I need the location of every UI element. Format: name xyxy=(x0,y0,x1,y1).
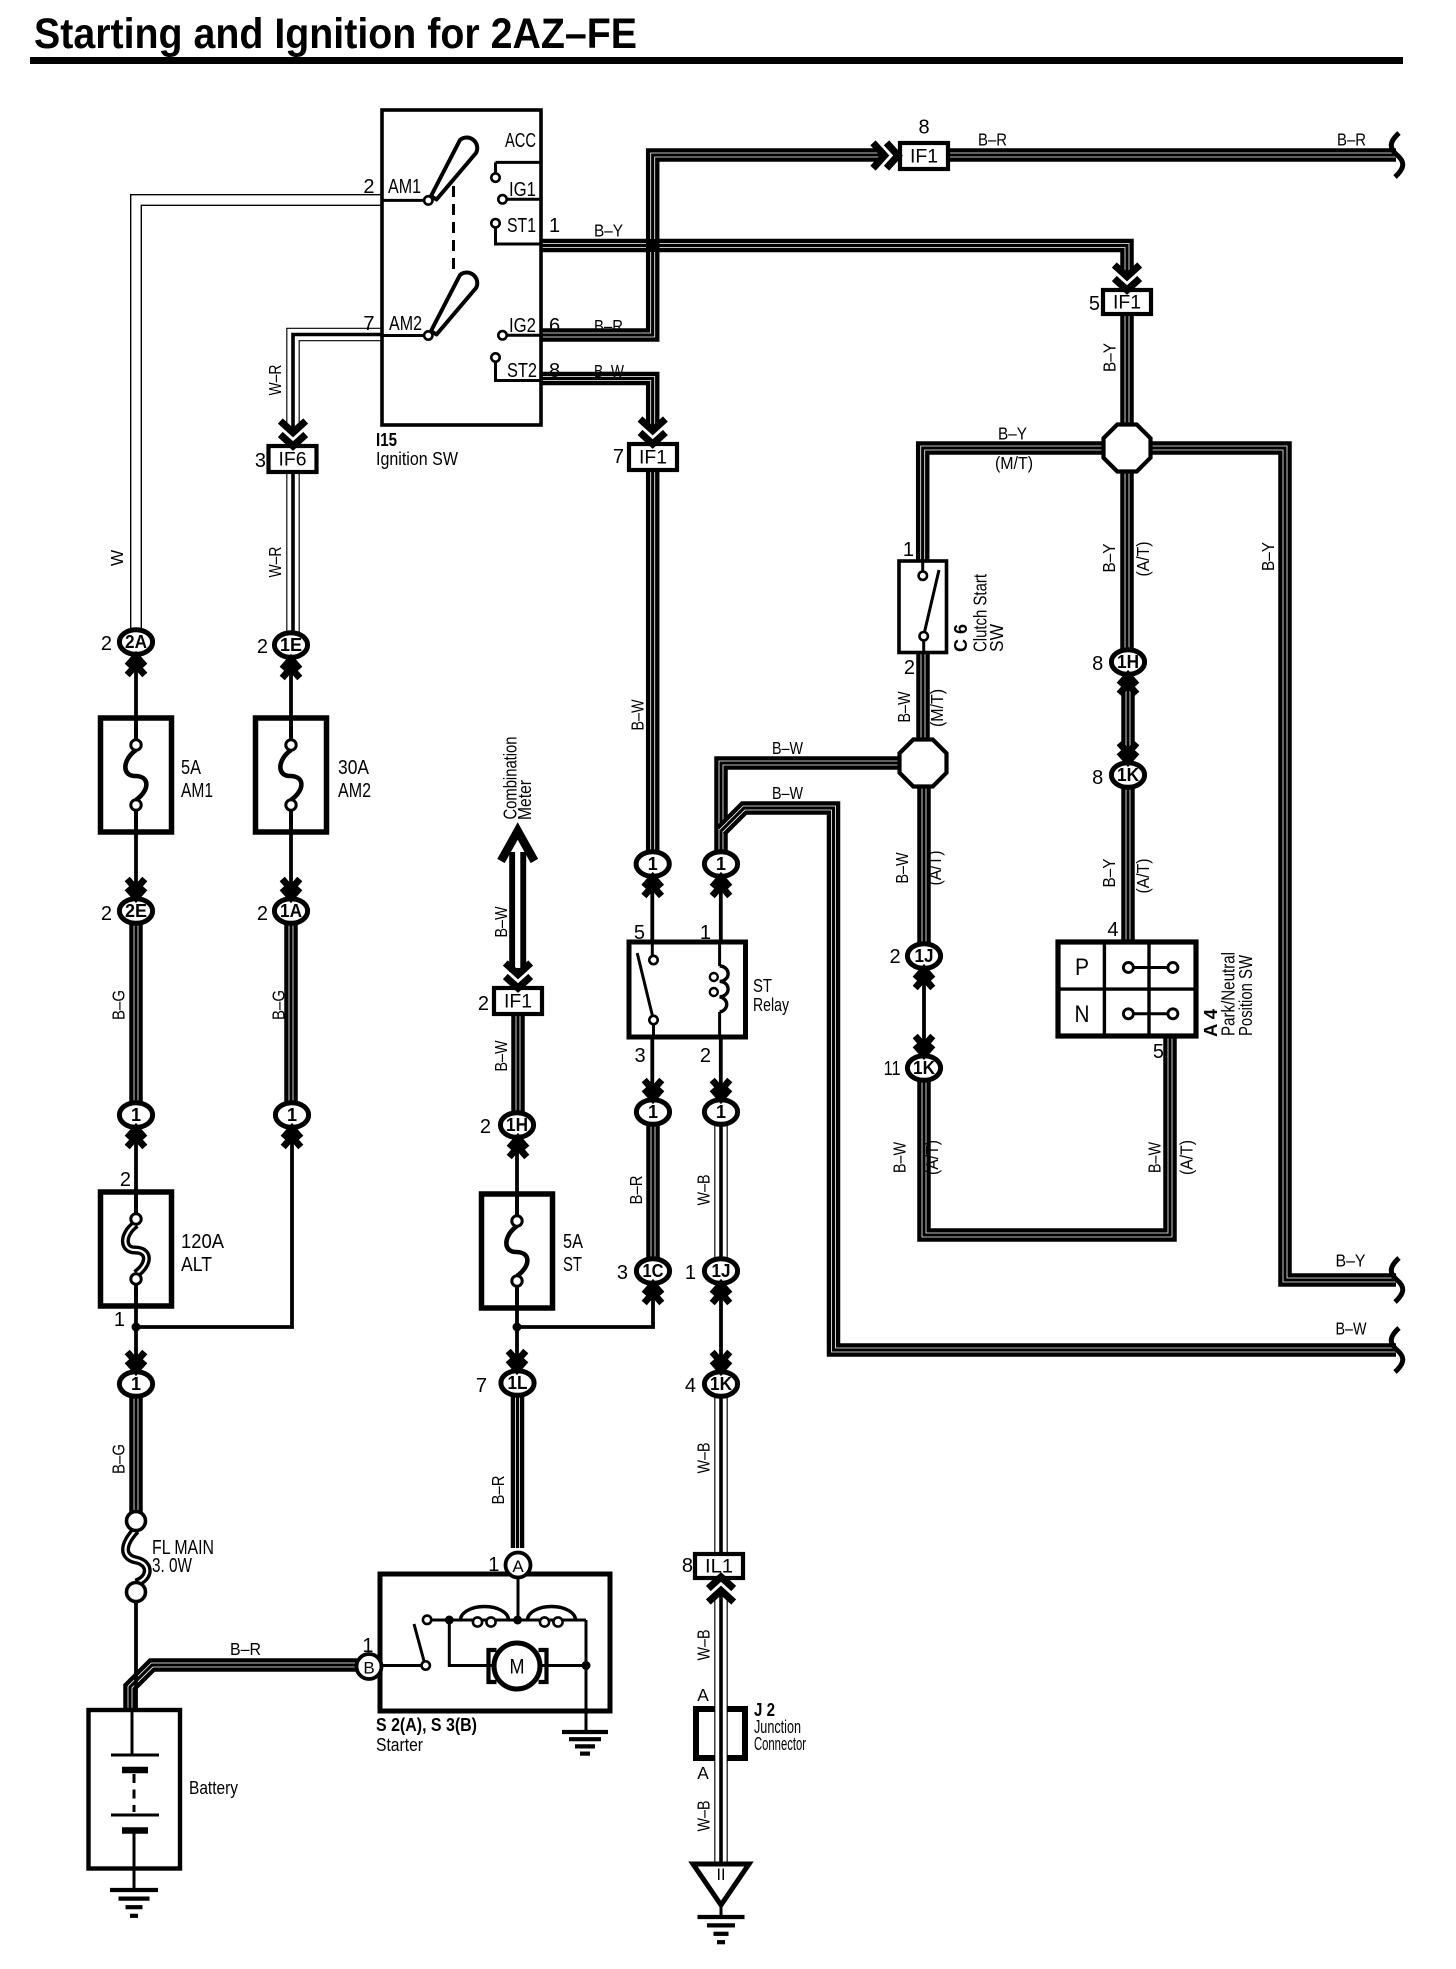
svg-text:120A: 120A xyxy=(181,1231,225,1253)
svg-text:B–R: B–R xyxy=(626,1176,646,1205)
svg-text:B–R: B–R xyxy=(978,130,1007,150)
svg-text:IF1: IF1 xyxy=(910,147,938,168)
svg-text:4: 4 xyxy=(685,1375,696,1397)
svg-text:B: B xyxy=(363,1659,374,1678)
svg-text:Starting and Ignition for 2AZ–: Starting and Ignition for 2AZ–FE xyxy=(34,10,637,58)
svg-text:B–W: B–W xyxy=(890,1141,910,1173)
svg-text:6: 6 xyxy=(549,315,560,337)
svg-text:W–B: W–B xyxy=(694,1175,714,1206)
svg-text:5A: 5A xyxy=(563,1231,584,1253)
svg-text:B–R: B–R xyxy=(230,1639,261,1659)
svg-text:(A/T): (A/T) xyxy=(922,1140,942,1175)
svg-text:I15: I15 xyxy=(376,430,397,450)
svg-text:ST1: ST1 xyxy=(507,215,536,237)
svg-text:(A/T): (A/T) xyxy=(1133,859,1153,894)
svg-text:1: 1 xyxy=(903,539,914,561)
svg-text:2: 2 xyxy=(480,1116,491,1138)
svg-text:B–W: B–W xyxy=(894,691,914,723)
svg-text:1H: 1H xyxy=(1117,652,1139,672)
svg-text:B–W: B–W xyxy=(628,699,648,731)
svg-text:AM1: AM1 xyxy=(388,176,421,198)
svg-text:1: 1 xyxy=(648,854,658,874)
svg-text:4: 4 xyxy=(1107,919,1118,941)
svg-text:Starter: Starter xyxy=(376,1735,423,1755)
svg-text:(A/T): (A/T) xyxy=(1177,1140,1197,1175)
svg-text:B–W: B–W xyxy=(594,361,625,381)
svg-text:1C: 1C xyxy=(643,1261,664,1281)
svg-text:SW: SW xyxy=(987,624,1007,652)
svg-text:5A: 5A xyxy=(181,757,202,779)
svg-text:2: 2 xyxy=(101,633,112,655)
svg-text:B–Y: B–Y xyxy=(1258,542,1278,571)
svg-text:ST: ST xyxy=(753,976,772,996)
svg-text:1A: 1A xyxy=(280,901,302,921)
svg-text:1: 1 xyxy=(716,854,726,874)
svg-text:1: 1 xyxy=(716,1102,726,1122)
svg-text:1: 1 xyxy=(549,215,560,237)
svg-text:W–B: W–B xyxy=(694,1801,714,1832)
svg-text:3: 3 xyxy=(617,1262,628,1284)
svg-text:1: 1 xyxy=(648,1102,658,1122)
svg-text:1K: 1K xyxy=(913,1058,935,1078)
svg-text:IF6: IF6 xyxy=(279,450,307,471)
svg-text:IG2: IG2 xyxy=(509,315,536,337)
svg-text:Relay: Relay xyxy=(753,995,789,1015)
svg-text:1K: 1K xyxy=(1117,765,1139,785)
svg-text:B–Y: B–Y xyxy=(1336,1251,1366,1271)
svg-text:1: 1 xyxy=(287,1105,297,1125)
svg-text:P: P xyxy=(1075,954,1089,981)
svg-text:3: 3 xyxy=(255,450,266,472)
svg-text:II: II xyxy=(717,1865,726,1884)
svg-text:A: A xyxy=(512,1557,524,1576)
svg-text:3: 3 xyxy=(634,1045,645,1067)
svg-text:7: 7 xyxy=(476,1375,487,1397)
svg-text:8: 8 xyxy=(549,360,560,382)
svg-text:A: A xyxy=(697,1685,709,1705)
svg-text:W–R: W–R xyxy=(265,365,285,396)
svg-text:2: 2 xyxy=(700,1045,711,1067)
svg-text:AM2: AM2 xyxy=(389,313,422,335)
svg-text:B–W: B–W xyxy=(772,783,804,803)
svg-text:ACC: ACC xyxy=(505,130,536,152)
svg-text:11: 11 xyxy=(884,1058,901,1080)
svg-text:1: 1 xyxy=(700,922,711,944)
svg-text:30A: 30A xyxy=(338,757,370,779)
svg-text:ST2: ST2 xyxy=(507,360,537,382)
svg-text:B–Y: B–Y xyxy=(1099,858,1119,887)
svg-text:1: 1 xyxy=(362,1635,373,1657)
svg-text:AM1: AM1 xyxy=(181,780,213,802)
svg-text:B–Y: B–Y xyxy=(594,221,623,241)
svg-text:B–R: B–R xyxy=(488,1476,508,1505)
svg-text:B–G: B–G xyxy=(269,990,289,1020)
svg-text:1J: 1J xyxy=(915,946,934,966)
svg-text:B–W: B–W xyxy=(491,1040,511,1072)
svg-text:2: 2 xyxy=(257,636,268,658)
svg-text:IG1: IG1 xyxy=(509,179,536,201)
svg-text:Position SW: Position SW xyxy=(1236,955,1256,1036)
svg-text:B–R: B–R xyxy=(1337,130,1366,150)
svg-text:1K: 1K xyxy=(710,1374,732,1394)
svg-text:Ignition SW: Ignition SW xyxy=(376,449,458,469)
svg-text:AM2: AM2 xyxy=(338,780,371,802)
svg-text:1: 1 xyxy=(685,1262,696,1284)
svg-text:A: A xyxy=(697,1763,709,1783)
svg-text:(M/T): (M/T) xyxy=(995,453,1033,473)
svg-text:2: 2 xyxy=(904,657,915,679)
svg-text:1J: 1J xyxy=(712,1261,731,1281)
svg-text:1: 1 xyxy=(131,1105,141,1125)
svg-text:B–Y: B–Y xyxy=(1099,543,1119,572)
svg-text:(A/T): (A/T) xyxy=(1133,542,1153,577)
svg-text:3. 0W: 3. 0W xyxy=(152,1555,192,1577)
svg-text:M: M xyxy=(510,1656,525,1679)
svg-text:ST: ST xyxy=(563,1254,582,1276)
svg-text:1: 1 xyxy=(131,1374,141,1394)
svg-text:2: 2 xyxy=(889,946,900,968)
svg-text:B–G: B–G xyxy=(109,1444,129,1474)
svg-text:B–G: B–G xyxy=(109,990,129,1020)
svg-text:Connector: Connector xyxy=(754,1734,806,1754)
svg-text:2: 2 xyxy=(101,903,112,925)
svg-text:IF1: IF1 xyxy=(504,992,532,1013)
svg-text:ALT: ALT xyxy=(181,1254,212,1276)
svg-text:W: W xyxy=(107,549,127,566)
svg-text:B–W: B–W xyxy=(892,852,912,884)
svg-text:1: 1 xyxy=(488,1554,499,1576)
svg-text:5: 5 xyxy=(634,922,645,944)
svg-text:5: 5 xyxy=(1089,293,1100,315)
svg-text:B–W: B–W xyxy=(491,906,511,938)
svg-text:1L: 1L xyxy=(508,1373,528,1393)
svg-text:IF1: IF1 xyxy=(639,448,667,469)
svg-text:B–W: B–W xyxy=(1336,1319,1368,1339)
svg-text:5: 5 xyxy=(1153,1041,1164,1063)
svg-text:2: 2 xyxy=(120,1169,131,1191)
svg-text:2: 2 xyxy=(257,903,268,925)
svg-text:2: 2 xyxy=(363,176,374,198)
svg-text:Battery: Battery xyxy=(189,1778,238,1798)
svg-text:B–Y: B–Y xyxy=(1100,343,1120,372)
svg-text:B–Y: B–Y xyxy=(998,424,1027,444)
svg-text:(M/T): (M/T) xyxy=(927,689,947,727)
svg-text:N: N xyxy=(1075,1001,1090,1028)
svg-text:C 6: C 6 xyxy=(951,624,971,652)
svg-text:2E: 2E xyxy=(125,901,147,921)
svg-text:8: 8 xyxy=(682,1555,693,1577)
svg-text:W–B: W–B xyxy=(694,1630,714,1661)
svg-text:2A: 2A xyxy=(125,632,147,652)
svg-text:1E: 1E xyxy=(280,635,302,655)
svg-text:B–W: B–W xyxy=(1145,1141,1165,1173)
svg-text:W–B: W–B xyxy=(694,1443,714,1474)
svg-text:8: 8 xyxy=(1092,767,1103,789)
svg-text:B–W: B–W xyxy=(772,738,804,758)
svg-text:Meter: Meter xyxy=(515,780,535,820)
svg-text:1H: 1H xyxy=(506,1115,528,1135)
svg-text:8: 8 xyxy=(918,117,929,139)
svg-text:1: 1 xyxy=(114,1309,125,1331)
svg-text:IF1: IF1 xyxy=(1113,293,1141,314)
svg-text:W–R: W–R xyxy=(265,547,285,578)
svg-text:S 2(A), S 3(B): S 2(A), S 3(B) xyxy=(376,1715,477,1735)
svg-text:7: 7 xyxy=(363,313,374,335)
svg-text:8: 8 xyxy=(1092,653,1103,675)
svg-text:7: 7 xyxy=(613,446,624,468)
svg-text:2: 2 xyxy=(478,993,489,1015)
svg-text:B–R: B–R xyxy=(594,316,623,336)
svg-text:(A/T): (A/T) xyxy=(925,851,945,886)
